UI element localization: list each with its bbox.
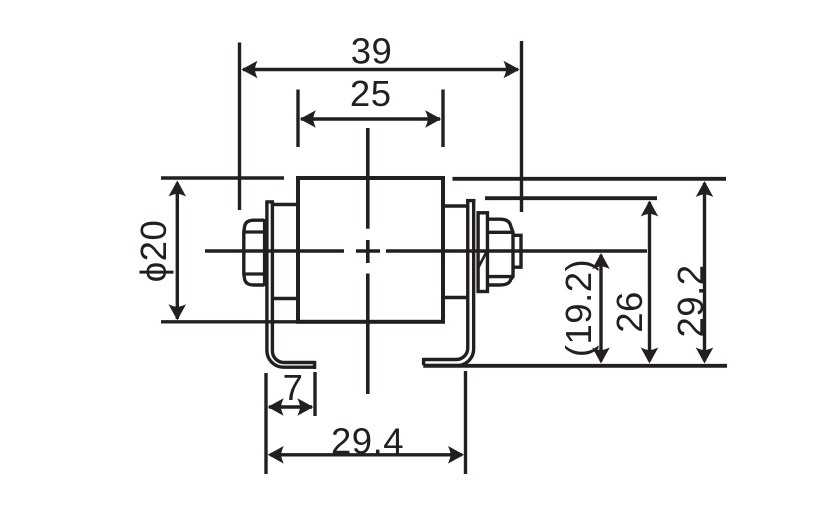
svg-text:7: 7 bbox=[283, 367, 304, 408]
svg-text:29.2: 29.2 bbox=[670, 264, 711, 337]
svg-text:26: 26 bbox=[609, 291, 650, 333]
svg-text:(19.2): (19.2) bbox=[558, 259, 599, 357]
svg-text:25: 25 bbox=[350, 73, 392, 114]
svg-text:ϕ20: ϕ20 bbox=[133, 220, 174, 283]
svg-text:39: 39 bbox=[351, 31, 393, 72]
svg-text:29.4: 29.4 bbox=[331, 421, 404, 462]
